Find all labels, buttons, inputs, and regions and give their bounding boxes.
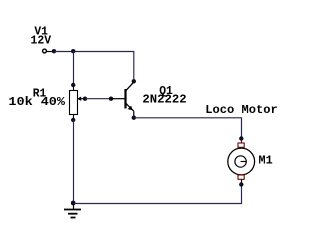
wire R1 wiper to Q1 base <box>85 98 111 100</box>
junction motor bottom pin <box>239 182 243 186</box>
junction node top rail / R1 branch <box>71 49 75 53</box>
junction R1 wiper pin <box>83 97 87 101</box>
transistor Q1 <box>111 82 134 118</box>
wire ground rail to motor bottom <box>74 185 242 204</box>
junction R1 top pin <box>71 83 75 87</box>
junction R1 bottom pin <box>71 118 75 122</box>
svg-text:Loco Motor: Loco Motor <box>205 104 278 117</box>
junction Q1 base pin <box>109 97 113 101</box>
wire net Loco Motor from emitter to motor top <box>134 118 242 143</box>
wire top rail from V1 to Q1 collector <box>54 52 134 82</box>
ground symbol <box>64 203 81 218</box>
resistor R1 potentiometer <box>70 85 86 120</box>
junction motor top pin <box>239 136 243 140</box>
Q1 emitter arrow head <box>128 106 133 111</box>
svg-text:12V: 12V <box>31 34 52 47</box>
R1 wiper arrow head <box>77 97 81 101</box>
junction Q1 collector pin <box>132 79 136 83</box>
wire R1 bottom to ground node <box>73 120 75 203</box>
svg-text:M1: M1 <box>259 154 273 167</box>
svg-text:2N2222: 2N2222 <box>142 93 186 106</box>
svg-text:10k 40%: 10k 40% <box>8 96 65 109</box>
junction ground node <box>71 201 76 206</box>
voltage source V1 terminal <box>43 49 54 53</box>
motor M1 <box>228 143 255 185</box>
junction Q1 emitter pin <box>132 116 136 120</box>
junction at V1 pin <box>52 49 56 53</box>
wire top rail to R1 <box>73 51 75 85</box>
